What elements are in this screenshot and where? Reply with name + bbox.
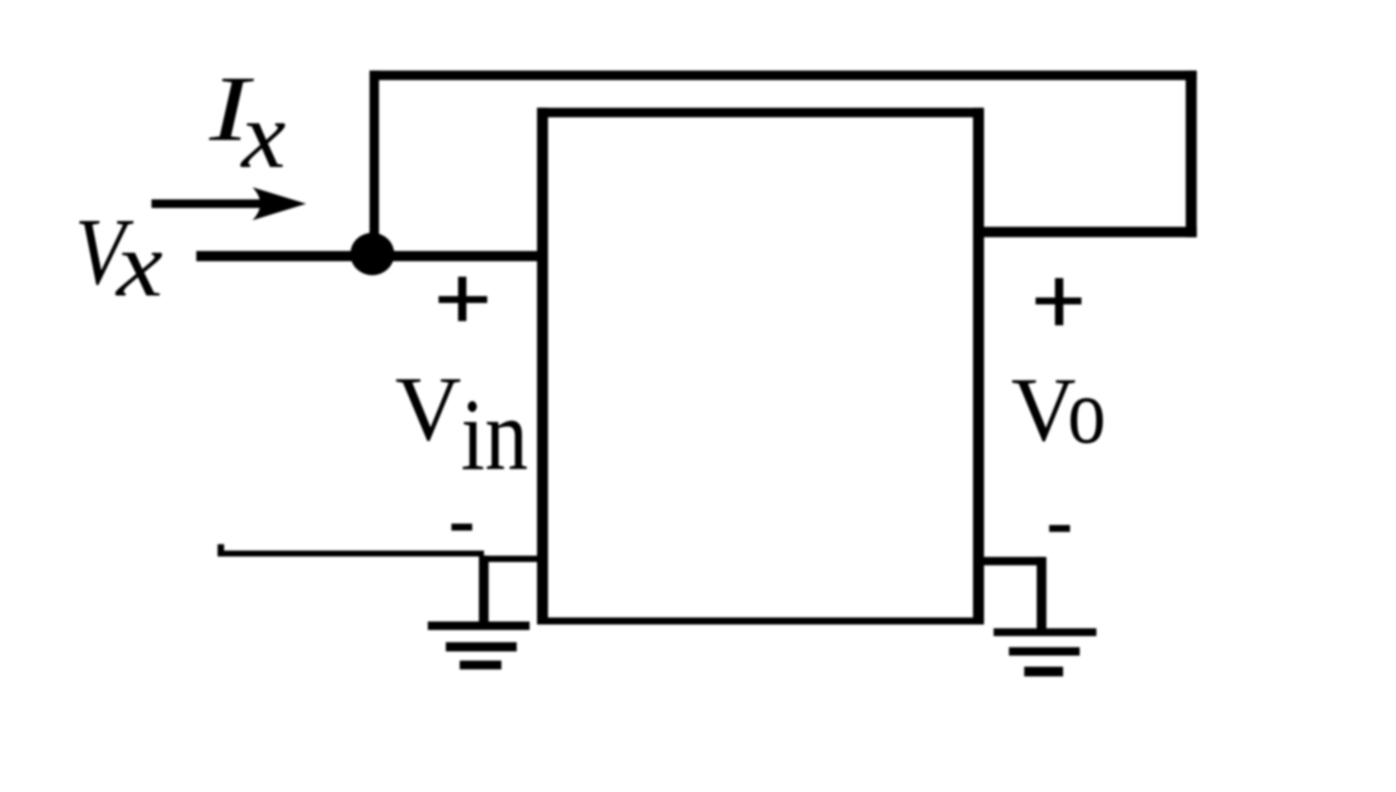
wire: Vx input to box left edge — [196, 251, 542, 261]
wire: bottom left horizontal — [218, 544, 484, 556]
svg-text:V: V — [1011, 358, 1076, 460]
label: - (Vin negative terminal) — [451, 524, 472, 531]
two-port network box — [537, 108, 984, 625]
wire: feedback left vertical — [370, 71, 380, 256]
label: Vin — [395, 357, 528, 492]
wire: Vin- terminal step to ground stem — [479, 556, 543, 562]
wire: Vo- terminal step to ground stem — [978, 557, 1042, 565]
label: + (Vin positive terminal) — [439, 277, 488, 321]
label: - (Vo negative terminal) — [1049, 525, 1070, 532]
node label Vx — [75, 199, 163, 316]
svg-text:in: in — [461, 377, 528, 492]
label: Vo — [1011, 358, 1106, 464]
svg-text:V: V — [395, 357, 461, 459]
ground (left) — [428, 556, 530, 670]
svg-text:x: x — [239, 83, 285, 189]
label: + (Vo positive terminal) — [1036, 278, 1082, 325]
current direction arrow for Ix — [152, 187, 307, 220]
wire: feedback top horizontal — [370, 71, 1197, 81]
current label Ix — [208, 57, 286, 188]
wire: feedback right vertical — [1186, 71, 1197, 238]
svg-text:o: o — [1068, 358, 1106, 464]
node: input junction dot — [350, 233, 394, 276]
ground (right) — [994, 557, 1097, 677]
wire: output to feedback (bottom horizontal of loop) — [978, 227, 1197, 237]
svg-text:x: x — [114, 213, 163, 316]
